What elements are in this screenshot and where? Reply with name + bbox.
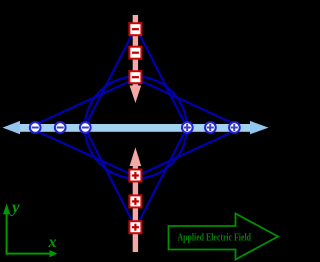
band left arrowhead <box>3 121 21 134</box>
svg-text:Applied Electric Field: Applied Electric Field <box>178 232 252 243</box>
bottom pink arrowhead (up) <box>130 147 142 166</box>
band right arrowhead <box>250 121 269 134</box>
y axis shaft <box>6 212 8 255</box>
bottom plus box 1 <box>129 170 141 182</box>
top minus box 2 <box>129 47 141 59</box>
y axis arrowhead <box>3 204 10 215</box>
top minus box 3 <box>129 71 141 83</box>
svg-text:y: y <box>10 198 20 217</box>
applied field big arrow outline <box>169 214 279 260</box>
top minus box 1 <box>129 23 141 35</box>
top pink arrowhead (down) <box>130 86 142 104</box>
svg-text:x: x <box>48 234 57 251</box>
x axis arrowhead <box>50 250 58 257</box>
plus charge circle 2 <box>205 122 216 133</box>
minus charge circle 3 <box>80 122 91 133</box>
horizontal field band <box>18 124 251 132</box>
minus charge circle 1 <box>30 122 41 133</box>
bottom plus box 2 <box>129 195 141 207</box>
minus charge circle 2 <box>55 122 66 133</box>
plus charge circle 1 <box>182 122 193 133</box>
plus charge circle 3 <box>229 122 240 133</box>
tall diamond (distorted cloud vertical lobe) <box>85 27 187 228</box>
x axis shaft <box>6 253 51 255</box>
bottom pink arrow shaft <box>133 166 138 252</box>
top pink arrow shaft <box>133 15 138 86</box>
bottom plus box 3 <box>129 221 141 233</box>
wide diamond (distorted cloud horizontal lobe) <box>29 79 242 177</box>
electron cloud circle <box>85 77 187 179</box>
